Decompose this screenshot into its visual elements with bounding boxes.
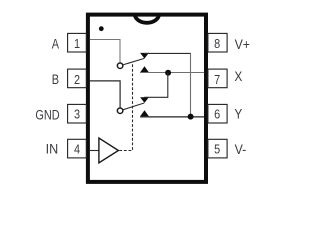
pin 1 box [68, 33, 87, 52]
svg-text:B: B [52, 72, 59, 88]
switch S2 contact to Y (open) [140, 110, 149, 116]
switch S1 contact to X (open) [140, 66, 149, 72]
svg-text:GND: GND [35, 107, 59, 123]
wire Y net to pin 6 [140, 116, 204, 118]
dashed control line from buffer to switch wipers [119, 63, 132, 151]
wire S1 Y-contact across top [144, 52, 191, 54]
svg-text:V-: V- [235, 141, 247, 157]
switch S2 contact to X (closed) [140, 97, 149, 103]
junction Y net [188, 114, 194, 120]
wire S2 X-contact to X junction [144, 73, 168, 98]
wire pin4 IN to buffer input [90, 150, 99, 152]
pin 6 box [208, 104, 227, 123]
svg-text:1: 1 [74, 36, 80, 51]
svg-text:7: 7 [214, 72, 220, 87]
svg-text:IN: IN [46, 141, 59, 157]
svg-text:X: X [234, 68, 242, 84]
svg-text:5: 5 [214, 142, 220, 157]
pin 5 box [208, 139, 227, 158]
switch S1 contact to Y (closed) [140, 53, 149, 59]
wire pin2 B to switch S2 pole [90, 81, 120, 108]
svg-text:4: 4 [74, 142, 80, 157]
svg-text:3: 3 [74, 107, 80, 122]
pin 2 box [68, 69, 87, 88]
pin 7 box [208, 69, 227, 88]
wire X net to pin 7 [140, 72, 204, 74]
svg-text:V+: V+ [235, 36, 251, 52]
wire pin1 A to switch S1 pole [90, 40, 120, 63]
svg-text:6: 6 [214, 107, 220, 122]
pin 8 box [208, 33, 227, 52]
package notch [135, 14, 159, 22]
pin 3 box [68, 104, 87, 123]
svg-text:8: 8 [214, 36, 220, 51]
IC package outline [88, 15, 206, 182]
pin 4 box [68, 139, 87, 158]
svg-text:A: A [52, 36, 60, 52]
pin 1 marker dot [99, 26, 104, 31]
switch S1 wiper [123, 58, 145, 65]
switch S1 pole [117, 63, 123, 69]
buffer driver [99, 138, 119, 163]
switch S2 pole [117, 108, 123, 114]
svg-text:Y: Y [234, 106, 242, 122]
junction X net [165, 70, 171, 76]
switch S2 wiper [123, 103, 144, 110]
svg-text:2: 2 [74, 72, 80, 87]
wire down to Y junction [190, 53, 192, 116]
